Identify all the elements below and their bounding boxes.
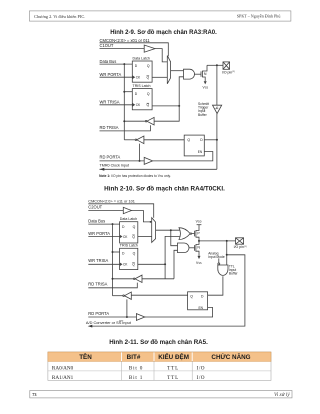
- wire U19 out to read latch EN fig2: [145, 308, 213, 318]
- wire TRIS out down to RD TRISA buffer fig1: [154, 106, 179, 121]
- wire mux2 out to OR gate: [156, 229, 180, 231]
- wire RD PORTA fig2: [88, 316, 136, 318]
- wire buffer U7 enable fig1: [139, 144, 141, 161]
- junction TRIS out node fig1: [178, 105, 180, 107]
- svg-text:Hình 2-9. Sơ đồ mạch chân RA3:: Hình 2-9. Sơ đồ mạch chân RA3:RA0.: [110, 30, 217, 36]
- wire AND out to N gate: [189, 247, 195, 249]
- wire read latch Q out fig2: [131, 294, 187, 296]
- wire mux2 out down to AND gate fig2: [171, 230, 178, 246]
- svg-text:Data Bus: Data Bus: [100, 59, 117, 64]
- junction A/D tap fig2: [226, 254, 228, 256]
- svg-text:EN: EN: [198, 150, 203, 154]
- buffer U10 C2OUT: [123, 207, 131, 213]
- svg-text:I/O pin: I/O pin: [222, 70, 232, 74]
- wire N drain fig1: [202, 65, 207, 71]
- tri-state buffer U7 to data bus fig1: [135, 136, 144, 144]
- wire U17 enable fig2: [126, 299, 128, 317]
- junction data bus / U8 out fig1: [123, 120, 125, 122]
- wire pin vertical fig2: [226, 241, 228, 265]
- svg-text:Q: Q: [147, 92, 150, 96]
- svg-text:Q: Q: [147, 76, 150, 80]
- and gate U14 N-driver fig2: [178, 243, 189, 253]
- junction RD PORTA / enable fig1: [139, 160, 141, 162]
- arrow to Vss fig2: [198, 256, 201, 259]
- svg-text:Q: Q: [147, 103, 150, 107]
- wire WR TRISA fig1: [100, 104, 133, 106]
- wire TTL buffer out to read latch D fig2: [208, 276, 223, 295]
- junction bus vertical / TRIS D fig1: [123, 91, 125, 93]
- wire N drain to node: [196, 241, 199, 245]
- svg-text:WR TRISA: WR TRISA: [100, 100, 120, 105]
- schmitt trigger U5 fig1: [213, 105, 222, 113]
- svg-text:Q: Q: [190, 295, 193, 299]
- tri-state buffer U18 TRIS read fig2: [133, 275, 142, 282]
- or gate U13 P-driver fig2: [179, 228, 190, 240]
- svg-text:TMR0 Clock Input: TMR0 Clock Input: [100, 164, 130, 168]
- wire buffer U10 out to mux2 input 1: [132, 211, 152, 222]
- svg-text:TTL: TTL: [167, 365, 179, 371]
- junction pin vertical / latch D fig1: [216, 139, 218, 141]
- svg-text:Q: Q: [132, 235, 135, 239]
- wire data bus vertical fig1: [123, 64, 125, 140]
- svg-text:Q: Q: [132, 263, 135, 267]
- svg-text:RD PORTA: RD PORTA: [88, 311, 109, 316]
- mux MUX2 fig2: [152, 218, 156, 243]
- svg-text:Data Bus: Data Bus: [88, 218, 105, 223]
- wire node to I/O pin fig1: [207, 64, 223, 66]
- junction pin node fig2: [226, 240, 228, 242]
- wire node to I/O pin fig2: [199, 240, 236, 242]
- read latch U6 fig1: [184, 135, 204, 156]
- wire read latch Q out fig1: [144, 139, 184, 141]
- junction data bus vertical fig2: [112, 223, 114, 225]
- arrowhead A/D wire: [88, 325, 93, 328]
- table header row: [48, 352, 271, 361]
- svg-text:RD PORTA: RD PORTA: [100, 155, 121, 160]
- svg-text:KIỂU ĐỆM: KIỂU ĐỆM: [158, 352, 189, 361]
- footer box: [30, 391, 292, 398]
- svg-text:Hình 2-11. Sơ đồ mạch chân RA5: Hình 2-11. Sơ đồ mạch chân RA5.: [109, 339, 208, 346]
- transistor Q3 N driver fig2: [194, 245, 196, 251]
- svg-text:TRIS Latch: TRIS Latch: [133, 84, 151, 88]
- svg-text:TTL: TTL: [167, 375, 179, 381]
- wire AND out to N driver gate fig1: [195, 73, 202, 75]
- page header box: [29, 11, 291, 21]
- wire CMCON select to mux1: [100, 43, 169, 56]
- wire data latch Q to mux2 input 0: [138, 236, 152, 238]
- I/O pin symbol fig2: [236, 238, 244, 244]
- buffer U1 C1OUT: [144, 45, 155, 52]
- junction mux2 out split: [170, 229, 172, 231]
- svg-text:TÊN: TÊN: [79, 352, 92, 361]
- wire TMR0 clock input: [100, 168, 217, 170]
- svg-text:I/O: I/O: [197, 375, 205, 381]
- wire U17 out to data bus fig2: [113, 295, 123, 297]
- svg-text:RD TRISA: RD TRISA: [88, 282, 107, 287]
- wire pin vertical fig1: [216, 65, 218, 169]
- wire WR PORTA fig1: [100, 76, 133, 78]
- I/O pin symbol fig1: [223, 62, 230, 69]
- svg-text:CHỨC NĂNG: CHỨC NĂNG: [211, 352, 250, 361]
- Vdd supply bar fig2: [197, 224, 202, 226]
- table pin RA5: [48, 352, 271, 381]
- wire CMCON select to mux2: [88, 204, 153, 218]
- buffer U9 RD PORTA fig1: [144, 157, 152, 164]
- arrowhead TMR0 wire: [100, 168, 105, 171]
- svg-text:CMCON<2:0> = x11 or 101: CMCON<2:0> = x11 or 101: [88, 199, 135, 203]
- svg-text:Vi xử lý: Vi xử lý: [274, 392, 290, 398]
- svg-text:(1): (1): [232, 71, 235, 73]
- svg-text:Data Latch: Data Latch: [133, 56, 150, 60]
- tri-state buffer U17 to data bus fig2: [123, 292, 132, 299]
- TRIS latch U3 fig1: [132, 84, 152, 110]
- wire to TRIS latch D fig2: [113, 251, 120, 253]
- arrow to Vss fig1: [204, 81, 207, 84]
- wire data latch Q to mux1 input 0: [152, 76, 167, 78]
- data latch U2 fig1: [132, 56, 152, 82]
- junction TRIS out node fig2: [164, 263, 166, 265]
- junction data bus / U18 out fig2: [112, 278, 114, 280]
- svg-text:Data Latch: Data Latch: [120, 217, 137, 221]
- wire RD PORTA fig1: [100, 160, 145, 162]
- svg-text:DD: DD: [198, 220, 202, 223]
- svg-text:Bit 0: Bit 0: [129, 365, 143, 371]
- wire pin to read latch D fig1: [204, 139, 217, 141]
- svg-text:Note 1: I/O pin has protectio: Note 1: I/O pin has protection diodes to…: [99, 174, 171, 178]
- svg-text:Q: Q: [187, 138, 190, 142]
- wire analog input mode to TTL buffer enable: [218, 258, 220, 263]
- wire P source to Vdd: [196, 225, 199, 231]
- svg-text:RD TRISA: RD TRISA: [100, 125, 119, 130]
- buffer U19 RD PORTA fig2: [136, 314, 144, 321]
- TTL input buffer U15 fig2: [218, 263, 228, 275]
- wire N source fig1: [202, 77, 205, 81]
- svg-text:SS: SS: [205, 86, 209, 89]
- wire C2OUT: [88, 210, 123, 212]
- svg-text:RA1/AN1: RA1/AN1: [52, 375, 74, 381]
- wire RD TRISA fig1: [100, 125, 151, 131]
- wire U9 out to read latch EN fig1: [153, 152, 213, 161]
- wire TRIS node down fig2: [164, 264, 166, 279]
- tri-state buffer U8 TRIS read fig1: [145, 117, 154, 125]
- wire to A/D converter input fig2: [92, 255, 245, 326]
- transistor Q1 N driver fig1: [200, 71, 202, 76]
- svg-text:WR TRISA: WR TRISA: [88, 258, 108, 263]
- wire buffer U1 out to mux1 input 1: [155, 49, 167, 62]
- wire OR out to P gate: [192, 233, 195, 235]
- svg-text:BIT#: BIT#: [127, 354, 141, 361]
- wire RD TRISA fig2: [88, 283, 137, 288]
- svg-text:73: 73: [32, 392, 36, 397]
- svg-text:(1): (1): [244, 246, 247, 248]
- wire mux1 out to AND gate: [171, 70, 184, 72]
- svg-text:SPKT – Nguyễn Đình Phú: SPKT – Nguyễn Đình Phú: [237, 14, 281, 19]
- and gate U4 fig1: [184, 69, 195, 79]
- svg-text:RA0/AN0: RA0/AN0: [52, 365, 74, 371]
- svg-text:WR PORTA: WR PORTA: [100, 72, 122, 77]
- svg-text:I/O: I/O: [197, 365, 205, 371]
- svg-text:TRIS Latch: TRIS Latch: [120, 244, 138, 248]
- mux MUX1 fig1: [167, 56, 170, 84]
- wire TRIS latch out fig2: [138, 263, 165, 265]
- wire buffer U7 out to data bus fig1: [124, 139, 135, 141]
- wire read latch EN stub fig1: [203, 151, 205, 153]
- svg-text:C2OUT: C2OUT: [88, 205, 102, 210]
- wire data bus vertical fig2: [112, 224, 114, 296]
- svg-text:WR PORTA: WR PORTA: [88, 231, 110, 236]
- junction P-N drains fig2: [198, 240, 200, 242]
- svg-text:N: N: [204, 72, 207, 76]
- transistor Q2 P driver fig2: [194, 231, 196, 237]
- wire data bus fig2: [88, 223, 119, 225]
- svg-text:Q: Q: [147, 64, 150, 68]
- wire TRIS out up to OR gate fig2: [165, 236, 180, 264]
- svg-text:Q: Q: [133, 225, 136, 229]
- svg-text:N: N: [197, 246, 200, 250]
- junction bus vertical / TRIS D fig2: [112, 251, 114, 253]
- junction pin node fig1: [216, 64, 218, 66]
- svg-text:Q: Q: [133, 252, 136, 256]
- wire TRIS latch out fig1: [152, 105, 179, 107]
- wire C1OUT: [100, 48, 145, 50]
- svg-text:Bit 1: Bit 1: [129, 375, 143, 381]
- wire U18 input from TRIS node fig2: [142, 278, 174, 280]
- wire WR PORTA fig2: [88, 236, 119, 238]
- wire AND input 2 fig2: [174, 250, 178, 278]
- junction RD PORTA / enable fig2: [126, 316, 128, 318]
- wire U18 out to data bus fig2: [113, 278, 134, 280]
- data latch U11 fig2: [120, 217, 138, 243]
- svg-text:Chương 2. Vi điều khiển PIC.: Chương 2. Vi điều khiển PIC.: [34, 14, 85, 19]
- svg-text:SS: SS: [198, 262, 202, 265]
- TRIS latch U12 fig2: [120, 244, 138, 270]
- junction mux2 input 1: [150, 221, 152, 223]
- svg-text:Hình 2-10. Sơ đồ mạch chân RA4: Hình 2-10. Sơ đồ mạch chân RA4/T0CKI.: [104, 184, 225, 193]
- overline on SS: [119, 320, 123, 322]
- wire buffer U8 out to data bus fig1: [124, 120, 145, 122]
- wire N source fig2: [196, 251, 199, 256]
- svg-text:C1OUT: C1OUT: [100, 43, 114, 48]
- wire TRIS out up to AND gate fig1: [179, 77, 183, 106]
- wire data bus fig1: [100, 63, 133, 65]
- junction data bus / bus vertical fig1: [123, 63, 125, 65]
- read latch U16 fig2: [188, 292, 208, 310]
- svg-text:A/D Converter or SS input: A/D Converter or SS input: [86, 320, 132, 325]
- wire to TRIS latch D fig1: [124, 91, 132, 93]
- wire WR TRISA fig2: [88, 263, 119, 265]
- svg-text:EN: EN: [199, 306, 204, 310]
- svg-text:I/O pin: I/O pin: [234, 245, 244, 249]
- wire P drain to node: [196, 237, 199, 241]
